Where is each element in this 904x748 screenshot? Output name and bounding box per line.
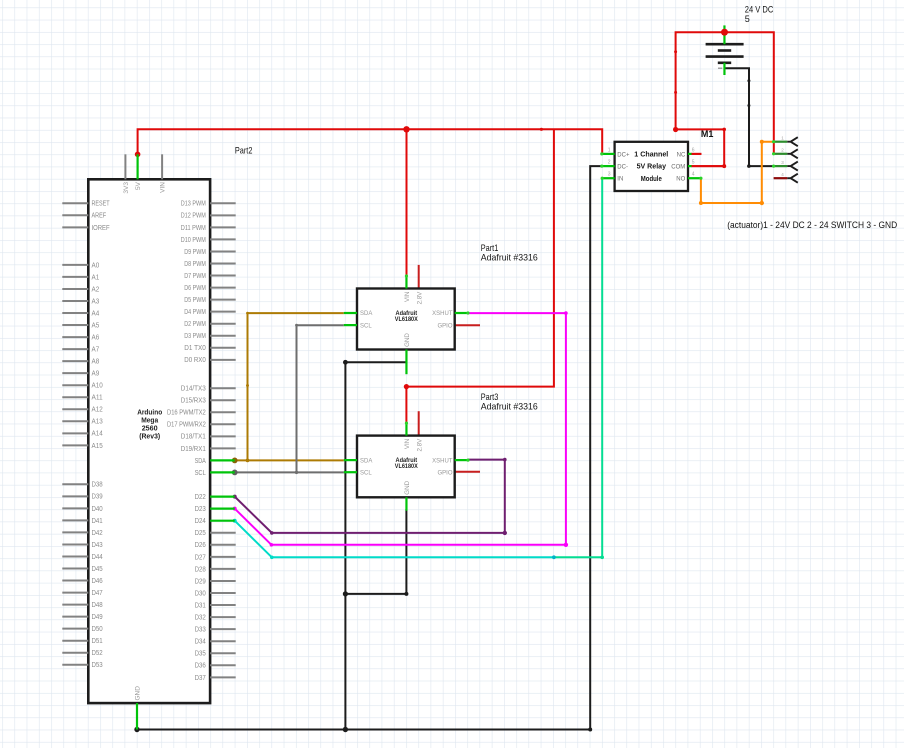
svg-text:D11 PWM: D11 PWM (181, 223, 206, 232)
svg-text:D8 PWM: D8 PWM (184, 259, 206, 268)
svg-text:5V Relay: 5V Relay (637, 162, 666, 171)
svg-text:A0: A0 (92, 260, 100, 269)
svg-text:5: 5 (692, 160, 695, 166)
svg-text:VIN: VIN (404, 292, 411, 302)
svg-text:D1 TX0: D1 TX0 (184, 343, 206, 352)
svg-text:A11: A11 (92, 393, 103, 402)
svg-text:M1: M1 (701, 129, 714, 139)
svg-text:(actuator)1 - 24V DC 2 - 24 SW: (actuator)1 - 24V DC 2 - 24 SWITCH 3 - G… (727, 220, 897, 230)
svg-text:XSHUT: XSHUT (432, 311, 453, 317)
svg-text:5: 5 (745, 14, 750, 24)
svg-text:D9 PWM: D9 PWM (184, 247, 206, 256)
svg-text:D19/RX1: D19/RX1 (181, 444, 206, 453)
svg-text:D32: D32 (195, 613, 206, 622)
svg-text:A14: A14 (92, 429, 103, 438)
svg-text:Part2: Part2 (235, 145, 253, 155)
svg-text:SDA: SDA (195, 456, 206, 465)
svg-text:5V: 5V (135, 181, 142, 190)
svg-text:3: 3 (608, 172, 611, 178)
svg-text:A2: A2 (92, 284, 100, 293)
svg-text:COM: COM (671, 165, 685, 171)
svg-text:Adafruit #3316: Adafruit #3316 (481, 253, 538, 263)
svg-text:D13 PWM: D13 PWM (181, 199, 206, 208)
svg-text:2.8V: 2.8V (417, 291, 424, 305)
svg-text:D16 PWM/TX2: D16 PWM/TX2 (167, 408, 206, 417)
svg-text:NO: NO (676, 177, 685, 183)
svg-text:D6 PWM: D6 PWM (184, 283, 206, 292)
svg-text:D5 PWM: D5 PWM (184, 295, 206, 304)
svg-text:Adafruit #3316: Adafruit #3316 (481, 402, 538, 412)
svg-text:Part1: Part1 (481, 243, 499, 253)
svg-text:VIN: VIN (160, 182, 167, 193)
svg-text:1 Channel: 1 Channel (634, 150, 668, 159)
svg-text:D44: D44 (92, 552, 103, 561)
svg-text:AREF: AREF (92, 211, 107, 220)
svg-text:D29: D29 (195, 576, 206, 585)
svg-text:A13: A13 (92, 417, 103, 426)
svg-text:6: 6 (692, 147, 695, 153)
svg-text:XSHUT: XSHUT (432, 458, 453, 464)
svg-text:D23: D23 (195, 504, 206, 513)
svg-text:D47: D47 (92, 588, 103, 597)
svg-text:D14/TX3: D14/TX3 (181, 384, 206, 393)
svg-text:D25: D25 (195, 528, 206, 537)
svg-text:DC-: DC- (617, 165, 628, 171)
svg-text:D41: D41 (92, 516, 103, 525)
svg-text:D24: D24 (195, 516, 206, 525)
svg-text:D33: D33 (195, 625, 206, 634)
svg-text:VL6180X: VL6180X (395, 316, 419, 323)
svg-text:D22: D22 (195, 492, 206, 501)
svg-text:DC+: DC+ (617, 152, 630, 158)
svg-text:A5: A5 (92, 320, 100, 329)
svg-text:D30: D30 (195, 588, 206, 597)
svg-text:3V3: 3V3 (123, 182, 130, 194)
svg-text:D40: D40 (92, 504, 103, 513)
svg-text:D45: D45 (92, 564, 103, 573)
svg-text:D15/RX3: D15/RX3 (181, 396, 206, 405)
svg-text:A9: A9 (92, 369, 100, 378)
svg-text:GND: GND (404, 480, 411, 494)
svg-text:2.8V: 2.8V (417, 438, 424, 452)
svg-text:D48: D48 (92, 600, 103, 609)
svg-text:D36: D36 (195, 661, 206, 670)
svg-text:IOREF: IOREF (92, 223, 111, 232)
svg-text:SCL: SCL (360, 470, 372, 476)
svg-text:D27: D27 (195, 552, 206, 561)
svg-text:SCL: SCL (360, 323, 372, 329)
svg-text:RESET: RESET (92, 199, 111, 208)
svg-text:GPIO: GPIO (437, 470, 452, 476)
svg-text:4: 4 (692, 172, 695, 178)
svg-text:D43: D43 (92, 540, 103, 549)
svg-text:Part3: Part3 (481, 392, 499, 402)
svg-text:D4 PWM: D4 PWM (184, 307, 206, 316)
svg-text:VL6180X: VL6180X (395, 463, 419, 470)
svg-text:A1: A1 (92, 272, 100, 281)
svg-text:D3 PWM: D3 PWM (184, 331, 206, 340)
svg-text:(Rev3): (Rev3) (139, 431, 160, 440)
svg-text:SDA: SDA (360, 311, 372, 317)
svg-text:D51: D51 (92, 636, 103, 645)
svg-text:A15: A15 (92, 441, 103, 450)
svg-text:1: 1 (608, 147, 611, 153)
svg-text:A4: A4 (92, 308, 100, 317)
svg-text:D53: D53 (92, 660, 103, 669)
svg-text:D7 PWM: D7 PWM (184, 271, 206, 280)
svg-text:D38: D38 (92, 480, 103, 489)
svg-text:A3: A3 (92, 296, 100, 305)
svg-text:GPIO: GPIO (437, 323, 452, 329)
svg-text:D28: D28 (195, 564, 206, 573)
svg-text:GND: GND (135, 686, 142, 701)
svg-text:D35: D35 (195, 649, 206, 658)
svg-text:D46: D46 (92, 576, 103, 585)
svg-text:D17 PWM/RX2: D17 PWM/RX2 (167, 420, 206, 429)
svg-text:A12: A12 (92, 405, 103, 414)
svg-text:IN: IN (617, 177, 623, 183)
svg-text:SCL: SCL (195, 468, 206, 477)
svg-text:D10 PWM: D10 PWM (181, 235, 206, 244)
svg-text:D26: D26 (195, 540, 206, 549)
svg-text:D49: D49 (92, 612, 103, 621)
svg-text:A8: A8 (92, 357, 100, 366)
svg-text:D50: D50 (92, 624, 103, 633)
svg-text:D0 RX0: D0 RX0 (184, 355, 206, 364)
svg-text:2: 2 (608, 160, 611, 166)
svg-text:D39: D39 (92, 492, 103, 501)
svg-text:D42: D42 (92, 528, 103, 537)
svg-text:D34: D34 (195, 637, 206, 646)
svg-text:D31: D31 (195, 600, 206, 609)
svg-text:D2 PWM: D2 PWM (184, 319, 206, 328)
svg-text:D37: D37 (195, 673, 206, 682)
svg-text:D52: D52 (92, 648, 103, 657)
svg-text:GND: GND (404, 333, 411, 347)
svg-text:Module: Module (641, 174, 662, 183)
svg-text:D12 PWM: D12 PWM (181, 211, 206, 220)
svg-text:A6: A6 (92, 332, 100, 341)
svg-text:VIN: VIN (404, 439, 411, 449)
svg-text:SDA: SDA (360, 458, 372, 464)
svg-text:A10: A10 (92, 381, 103, 390)
svg-text:A7: A7 (92, 345, 100, 354)
svg-text:D18/TX1: D18/TX1 (181, 432, 206, 441)
svg-text:NC: NC (677, 152, 686, 158)
